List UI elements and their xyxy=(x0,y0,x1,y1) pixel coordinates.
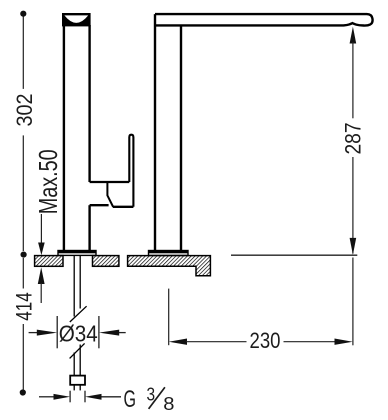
handle lever xyxy=(129,135,133,207)
handle pivot edge xyxy=(107,182,113,207)
spout outline xyxy=(155,14,373,25)
svg-text:302: 302 xyxy=(12,94,37,127)
dimension 414 xyxy=(22,258,24,390)
dimension 230 xyxy=(168,289,170,346)
rod break slash upper xyxy=(70,306,87,322)
svg-text:Max.50: Max.50 xyxy=(33,149,63,214)
right base flange xyxy=(149,251,189,256)
svg-text:287: 287 xyxy=(341,123,366,155)
countertop section left (left of hole) xyxy=(35,256,63,267)
countertop section right view with edge step xyxy=(128,256,211,276)
aerator cusp shading xyxy=(350,22,355,25)
G3/8 connector square xyxy=(70,376,85,385)
supply rod below counter xyxy=(74,256,80,391)
right column xyxy=(155,14,181,251)
svg-text:230: 230 xyxy=(250,328,281,353)
svg-text:414: 414 xyxy=(11,292,36,321)
extension line vertical right xyxy=(352,258,354,346)
rod break slash lower xyxy=(70,343,85,358)
extension line at counter top (right) xyxy=(231,254,357,256)
svg-text:Ø34: Ø34 xyxy=(59,320,98,346)
dimension diameter 34 xyxy=(29,316,126,348)
dimension G 3/8 xyxy=(39,391,121,403)
cap (top of left column) xyxy=(62,13,91,26)
countertop section left (right of hole) xyxy=(93,256,119,267)
dimension 287 xyxy=(350,27,357,44)
handle base top line xyxy=(90,181,130,183)
svg-text:8: 8 xyxy=(163,393,174,414)
dimension 302 xyxy=(22,16,24,251)
left base flange xyxy=(58,251,96,256)
svg-text:G: G xyxy=(123,386,136,413)
handle base bottom lines xyxy=(90,204,109,206)
left column body xyxy=(64,25,90,251)
